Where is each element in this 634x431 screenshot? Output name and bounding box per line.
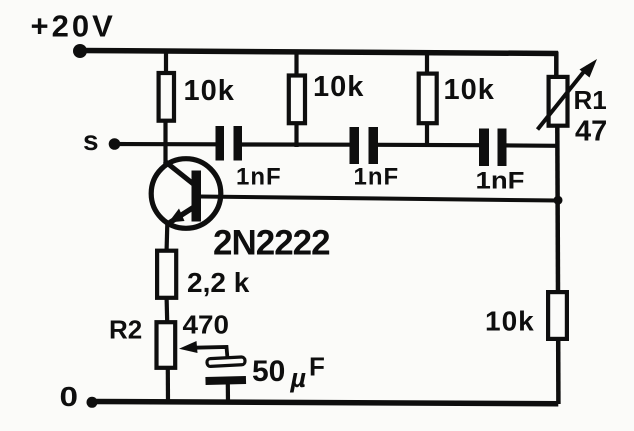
wire top +20V rail bbox=[80, 51, 558, 54]
svg-text:1nF: 1nF bbox=[354, 164, 400, 191]
wire stem resistor C top bbox=[425, 52, 429, 74]
svg-text:µ: µ bbox=[290, 363, 307, 393]
wire C3 to right vertical bbox=[505, 143, 558, 148]
wire right vertical top segment (rail corner to R1) bbox=[554, 52, 559, 77]
wire right vertical middle segment (R1 to bottom 10k) bbox=[555, 127, 560, 293]
resistor D 10k body (bottom right) bbox=[548, 292, 567, 339]
capacitor C2 right plate bbox=[369, 127, 379, 164]
wire C4 to ground rail bbox=[226, 383, 230, 403]
svg-text:50: 50 bbox=[252, 355, 285, 388]
transistor Q1 emitter lead bbox=[168, 207, 195, 224]
potentiometer R2 body bbox=[157, 322, 176, 368]
svg-text:470: 470 bbox=[183, 310, 230, 340]
wire stem resistor B top bbox=[294, 51, 298, 75]
potentiometer R1 arrow shaft bbox=[538, 67, 589, 130]
wire s node to capacitor C1 bbox=[112, 142, 217, 147]
capacitor C4 50uF bottom plate bbox=[205, 376, 246, 385]
wire stem resistor C bottom bbox=[425, 124, 429, 147]
wire R2 bottom to ground rail bbox=[166, 368, 170, 403]
svg-text:10k: 10k bbox=[444, 74, 495, 106]
capacitor C1 left plate bbox=[216, 126, 225, 161]
svg-text:10k: 10k bbox=[184, 75, 235, 107]
transistor Q1 2N2222 body circle bbox=[151, 159, 221, 229]
potentiometer R1 body bbox=[549, 77, 568, 126]
potentiometer R2 wiper wire bbox=[189, 347, 228, 359]
wire base row (transistor base to right vertical) bbox=[200, 197, 558, 201]
potentiometer R2 wiper arrowhead bbox=[179, 341, 198, 353]
resistor B 10k body bbox=[289, 76, 305, 124]
wire emitter to 2.2k resistor bbox=[165, 224, 170, 250]
svg-text:R1: R1 bbox=[574, 85, 607, 115]
node 0V terminal dot bbox=[87, 397, 98, 408]
svg-text:47: 47 bbox=[575, 116, 607, 148]
svg-text:10k: 10k bbox=[313, 71, 364, 103]
svg-text:s: s bbox=[83, 125, 99, 156]
svg-text:1nF: 1nF bbox=[476, 168, 525, 195]
wire stem resistor B bottom bbox=[294, 124, 298, 147]
capacitor C3 right plate bbox=[498, 129, 507, 167]
svg-text:0: 0 bbox=[60, 381, 79, 412]
svg-text:F: F bbox=[309, 352, 325, 382]
svg-text:+20V: +20V bbox=[31, 9, 116, 44]
resistor 2.2k body bbox=[157, 251, 176, 298]
resistor C 10k body bbox=[419, 74, 437, 124]
wire 2.2k to R2 bbox=[165, 298, 170, 322]
svg-text:1nF: 1nF bbox=[236, 164, 282, 191]
capacitor C4 50uF top plate bbox=[207, 357, 245, 367]
resistor A 10k body bbox=[159, 73, 174, 121]
capacitor C1 right plate bbox=[234, 126, 243, 161]
wire C2 to C3 bbox=[377, 143, 482, 148]
wire stem resistor A bottom into transistor collector bbox=[163, 121, 167, 164]
svg-text:R2: R2 bbox=[109, 315, 142, 345]
wire right vertical bottom segment (10k to ground rail) bbox=[556, 340, 561, 404]
node +20V terminal dot bbox=[73, 44, 87, 58]
wire bottom ground rail bbox=[92, 402, 558, 404]
node junction base row / right vertical bbox=[554, 196, 563, 205]
transistor Q1 base bar bbox=[192, 171, 202, 222]
transistor Q1 emitter arrowhead bbox=[169, 209, 185, 223]
transistor Q1 collector lead bbox=[165, 161, 195, 185]
wire stem resistor A top bbox=[164, 50, 168, 72]
wire C1 to C2 bbox=[241, 142, 352, 146]
capacitor C3 left plate bbox=[479, 129, 489, 167]
node s input dot bbox=[109, 138, 121, 150]
capacitor C2 left plate bbox=[350, 127, 360, 164]
svg-text:2,2 k: 2,2 k bbox=[187, 267, 250, 298]
svg-text:2N2222: 2N2222 bbox=[213, 224, 330, 263]
potentiometer R1 arrowhead bbox=[580, 59, 598, 78]
svg-text:10k: 10k bbox=[485, 306, 535, 337]
